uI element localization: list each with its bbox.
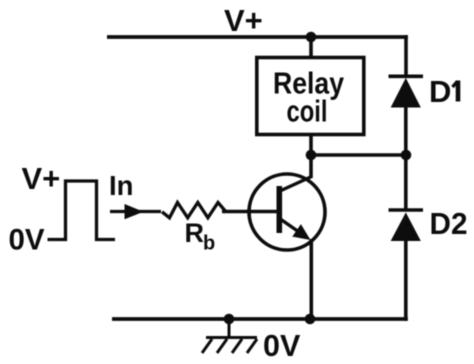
ground: [202, 319, 257, 353]
node top rail junction: [306, 32, 317, 43]
label Rb: [185, 218, 216, 255]
resistor Rb: [162, 203, 226, 218]
node emitter junction: [305, 314, 316, 325]
transistor emitter arrow: [292, 224, 310, 240]
node diode branch junction: [401, 150, 412, 161]
svg-text:R: R: [185, 218, 205, 248]
svg-text:D: D: [429, 74, 451, 109]
wire link node to diode branch: [311, 153, 406, 157]
svg-text:coil: coil: [287, 94, 328, 129]
transistor body circle: [249, 174, 325, 250]
svg-text:V+: V+: [224, 3, 263, 38]
wire rail corner down to D1 cathode: [404, 35, 408, 76]
wire bottom 0V rail: [112, 317, 408, 321]
wire relay coil bottom to node: [309, 134, 313, 155]
svg-text:b: b: [203, 233, 215, 255]
svg-text:V+: V+: [22, 161, 61, 196]
node ground junction: [224, 314, 235, 325]
transistor Q1: [222, 174, 325, 250]
svg-text:0V: 0V: [9, 224, 45, 257]
arrow input signal direction: [125, 204, 144, 219]
svg-text:0V: 0V: [263, 329, 301, 363]
transistor base bar: [277, 186, 283, 233]
input pulse waveform: [48, 181, 116, 240]
svg-text:D2: D2: [430, 206, 468, 241]
node relay coil / collector junction: [306, 150, 317, 161]
label D1: [429, 74, 458, 109]
wire stub rail to relay coil: [309, 37, 313, 56]
wire input: [110, 210, 161, 213]
wire collector up to node: [309, 155, 313, 178]
wire base lead from resistor: [222, 210, 277, 213]
transistor collector lead: [281, 177, 312, 191]
wire emitter down to 0V rail: [309, 239, 313, 319]
svg-text:In: In: [109, 170, 133, 201]
transistor emitter lead: [281, 220, 304, 236]
wire node down to D2 cathode: [404, 155, 408, 209]
diode D1: [389, 76, 424, 155]
diode D2: [389, 210, 424, 321]
relay coil box: [257, 58, 364, 135]
wire top V+ rail: [107, 35, 408, 39]
